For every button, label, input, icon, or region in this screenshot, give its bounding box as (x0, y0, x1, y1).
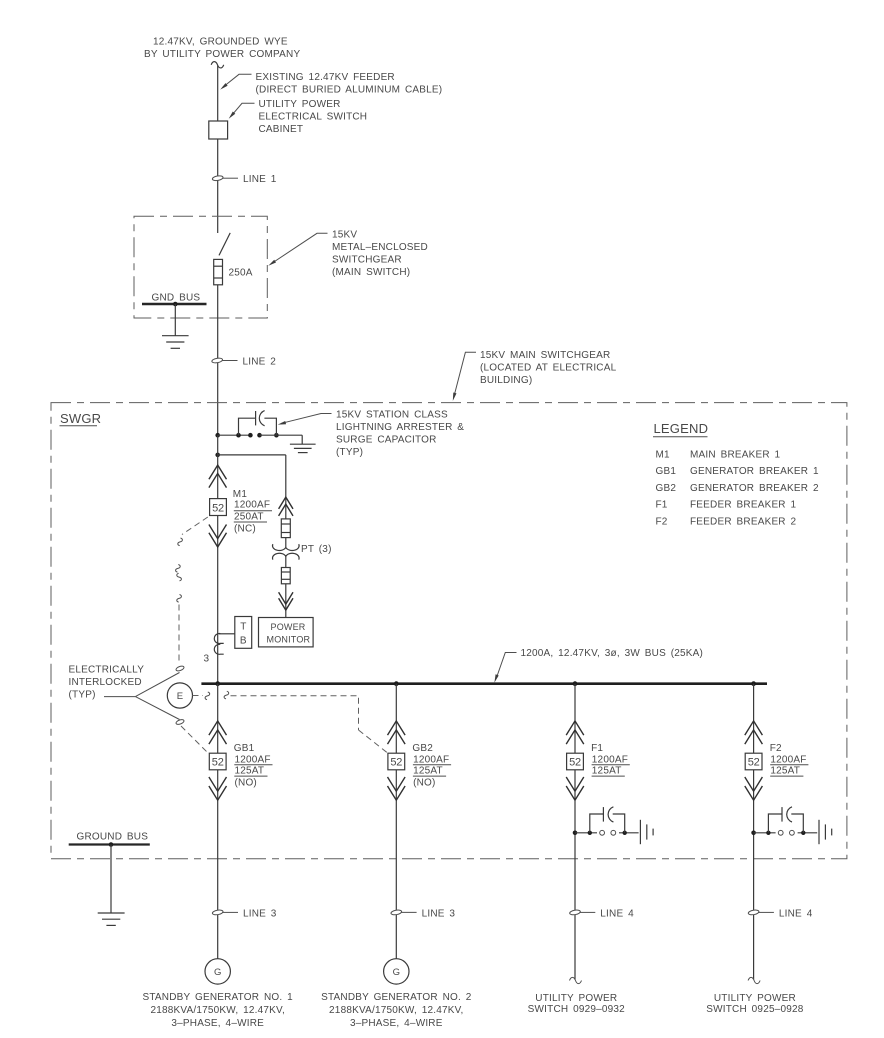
label: bus rating with leader (494, 648, 703, 683)
svg-text:GB1: GB1 (234, 743, 255, 754)
label: 15KV main switchgear note with leader (453, 350, 617, 401)
svg-text:ELECTRICALLY: ELECTRICALLY (69, 664, 145, 675)
wire: GB1 feeder column (217, 684, 219, 959)
breaker F2: drawout chevrons top (745, 721, 763, 744)
ground: F2 surge ground (819, 820, 832, 844)
breaker M1: drawout chevrons top (209, 465, 227, 488)
breaker GB1: drawout chevrons bottom (209, 777, 227, 800)
label: electrically interlocked note (69, 664, 180, 719)
component: PT secondary fuse (281, 568, 290, 584)
label: station class arrester note with leader (278, 410, 465, 459)
svg-text:1200AF: 1200AF (413, 754, 449, 765)
node: LINE 4 marker F2 (748, 908, 813, 919)
node: LINE 2 marker (212, 357, 277, 368)
breaker GB1: drawout chevrons top (209, 721, 227, 744)
svg-text:(NC): (NC) (234, 523, 256, 534)
svg-text:1200AF: 1200AF (592, 754, 628, 765)
svg-text:F1: F1 (656, 500, 668, 511)
bus: 1200A main bus (201, 682, 767, 685)
component: surge capacitor loop (239, 411, 277, 436)
node: junction main line to PT tap (215, 453, 220, 458)
generator G1 (205, 959, 230, 984)
svg-text:15KV: 15KV (332, 230, 357, 241)
svg-text:LINE 4: LINE 4 (779, 908, 813, 919)
label: main switch note with leader (268, 230, 428, 279)
svg-text:FEEDER BREAKER 1: FEEDER BREAKER 1 (690, 500, 797, 511)
component: interlock device E (167, 683, 192, 708)
component: potential transformer PT (3) (272, 544, 331, 560)
breaker F2: 52 device box (745, 753, 762, 770)
label: SWGR (60, 411, 102, 426)
component: fuse 250A (214, 259, 253, 284)
svg-text:(TYP): (TYP) (69, 690, 96, 701)
svg-text:SWGR: SWGR (60, 411, 101, 426)
ground: F1 surge ground (640, 820, 653, 844)
label: LEGEND title (653, 421, 708, 437)
component: F2 surge arrester and capacitor (751, 807, 817, 835)
svg-text:12.47KV, GROUNDED WYE: 12.47KV, GROUNDED WYE (153, 37, 288, 48)
svg-text:3–PHASE, 4–WIRE: 3–PHASE, 4–WIRE (350, 1018, 443, 1029)
svg-text:F1: F1 (591, 743, 603, 754)
svg-text:METAL–ENCLOSED: METAL–ENCLOSED (332, 242, 428, 253)
breaker M1: drawout chevrons bottom (209, 525, 227, 548)
wire: PT tap horizontal (218, 454, 286, 456)
svg-text:F2: F2 (770, 743, 782, 754)
svg-text:UTILITY POWER: UTILITY POWER (535, 993, 617, 1004)
component: PT drawout chevrons (279, 497, 293, 516)
label: legend entry F1 (656, 500, 797, 511)
label: existing feeder note with leader (220, 72, 442, 96)
svg-text:SWITCH 0925–0928: SWITCH 0925–0928 (706, 1004, 804, 1015)
svg-text:1200AF: 1200AF (770, 754, 806, 765)
breaker F1: drawout chevrons bottom (566, 777, 584, 800)
svg-text:B: B (240, 636, 247, 647)
svg-text:52: 52 (569, 757, 581, 769)
svg-text:EXISTING 12.47KV FEEDER: EXISTING 12.47KV FEEDER (256, 72, 395, 83)
wire: incoming feeder from utility (217, 66, 219, 122)
node: bus junction F2 (751, 681, 756, 686)
interlock: dashed link M1 to E (175, 517, 207, 672)
breaker F2: drawout chevrons bottom (745, 777, 763, 800)
svg-text:LINE 3: LINE 3 (243, 908, 277, 919)
svg-text:ELECTRICAL SWITCH: ELECTRICAL SWITCH (259, 112, 368, 123)
wire: incoming feeder break squiggle (211, 62, 224, 68)
breaker M1: 52 device box (210, 499, 227, 516)
label: legend entry GB1 (656, 466, 819, 477)
label: utility power switch 0929-0932 (528, 993, 626, 1015)
component: current transformer CT on main line (204, 633, 224, 664)
label: standby generator no 1 (142, 992, 293, 1029)
svg-text:BY UTILITY POWER COMPANY: BY UTILITY POWER COMPANY (144, 49, 300, 60)
label: standby generator no 2 (321, 992, 472, 1029)
svg-text:FEEDER BREAKER 2: FEEDER BREAKER 2 (690, 516, 797, 527)
svg-text:1200AF: 1200AF (235, 754, 271, 765)
svg-text:GB1: GB1 (656, 466, 677, 477)
svg-text:T: T (240, 622, 246, 633)
label: legend entry M1 (656, 449, 781, 460)
label: legend entry F2 (656, 516, 797, 527)
svg-text:52: 52 (212, 757, 224, 769)
svg-text:M1: M1 (233, 489, 248, 500)
svg-text:125AT: 125AT (413, 766, 443, 777)
wire: PT branch vertical (285, 455, 287, 519)
svg-text:G: G (214, 967, 221, 978)
svg-text:3: 3 (204, 654, 210, 665)
svg-text:GB2: GB2 (656, 483, 677, 494)
svg-text:PT (3): PT (3) (301, 544, 332, 555)
node: GND BUS in main switch (142, 292, 207, 306)
svg-text:2188KVA/1750KW, 12.47KV,: 2188KVA/1750KW, 12.47KV, (150, 1005, 284, 1016)
component: PT lead chevrons down (279, 592, 293, 610)
wire: PT secondary (285, 556, 287, 567)
svg-text:(LOCATED AT ELECTRICAL: (LOCATED AT ELECTRICAL (480, 363, 617, 374)
svg-text:52: 52 (748, 757, 760, 769)
svg-text:250A: 250A (229, 268, 253, 279)
svg-text:E: E (177, 691, 183, 702)
node: bus junction main (215, 681, 220, 686)
svg-text:POWER: POWER (271, 622, 306, 632)
svg-text:LIGHTNING ARRESTER &: LIGHTNING ARRESTER & (336, 422, 464, 433)
svg-text:LEGEND: LEGEND (654, 421, 709, 436)
svg-text:LINE 1: LINE 1 (243, 174, 277, 185)
breaker GB2: drawout chevrons top (388, 721, 406, 744)
node: utility source label (144, 37, 300, 61)
svg-text:1200AF: 1200AF (234, 500, 270, 511)
svg-text:GENERATOR BREAKER 1: GENERATOR BREAKER 1 (690, 466, 819, 477)
wire: fuse to LINE 2 and into SWGR (217, 285, 219, 435)
node: junction main line to arrester (215, 433, 220, 438)
svg-text:52: 52 (390, 757, 402, 769)
component: PT primary fuse (281, 519, 290, 547)
node: GROUND BUS (69, 832, 150, 847)
component: terminal block TB (235, 617, 252, 649)
breaker GB2: 52 device box (388, 753, 405, 770)
component: F1 surge arrester and capacitor (573, 807, 639, 835)
svg-text:(DIRECT BURIED ALUMINUM CABLE): (DIRECT BURIED ALUMINUM CABLE) (256, 85, 443, 96)
svg-text:3–PHASE, 4–WIRE: 3–PHASE, 4–WIRE (171, 1018, 264, 1029)
svg-text:LINE 4: LINE 4 (600, 908, 634, 919)
svg-text:SURGE CAPACITOR: SURGE CAPACITOR (336, 435, 437, 446)
svg-text:(TYP): (TYP) (336, 447, 363, 458)
svg-text:G: G (393, 967, 400, 978)
wire: arrester tap right segment (260, 434, 303, 436)
svg-text:STANDBY GENERATOR NO. 2: STANDBY GENERATOR NO. 2 (321, 992, 472, 1003)
node: LINE 1 marker (212, 174, 277, 185)
svg-text:GENERATOR BREAKER 2: GENERATOR BREAKER 2 (690, 483, 819, 494)
svg-text:125AT: 125AT (770, 766, 800, 777)
svg-text:GB2: GB2 (412, 743, 433, 754)
svg-text:GROUND BUS: GROUND BUS (77, 832, 149, 843)
svg-text:UTILITY POWER: UTILITY POWER (714, 993, 796, 1004)
breaker GB1: 52 device box (209, 753, 226, 770)
node: bus junction GB2 (394, 681, 399, 686)
svg-text:LINE 2: LINE 2 (243, 357, 277, 368)
label: utility power switch 0925-0928 (706, 993, 804, 1015)
wire: F1 line break squiggle (570, 977, 582, 983)
svg-text:LINE 3: LINE 3 (422, 908, 456, 919)
svg-text:M1: M1 (656, 449, 671, 460)
label: legend entry GB2 (656, 483, 819, 494)
breaker F1: drawout chevrons top (566, 721, 584, 744)
svg-text:125AT: 125AT (592, 766, 622, 777)
enclosure: SWGR switchgear boundary (51, 403, 847, 859)
svg-text:UTILITY POWER: UTILITY POWER (259, 99, 341, 110)
breaker F1: 52 device box (567, 753, 584, 770)
svg-text:INTERLOCKED: INTERLOCKED (69, 677, 142, 688)
svg-text:SWITCHGEAR: SWITCHGEAR (332, 255, 402, 266)
svg-text:MONITOR: MONITOR (267, 635, 311, 645)
svg-text:(NO): (NO) (413, 778, 435, 789)
component: lightning arrester spark gap (236, 433, 279, 438)
component: main disconnect switch blade (219, 233, 230, 256)
svg-text:125AT: 125AT (235, 766, 265, 777)
svg-text:SWITCH 0929–0932: SWITCH 0929–0932 (528, 1004, 626, 1015)
svg-text:52: 52 (212, 502, 224, 514)
component: utility power electrical switch cabinet (209, 121, 228, 139)
svg-text:1200A, 12.47KV, 3ø, 3W BUS (25: 1200A, 12.47KV, 3ø, 3W BUS (25KA) (521, 648, 704, 659)
svg-text:15KV STATION CLASS: 15KV STATION CLASS (336, 410, 448, 421)
enclosure: 15KV metal-enclosed switchgear boundary (134, 216, 267, 318)
svg-text:15KV MAIN SWITCHGEAR: 15KV MAIN SWITCHGEAR (480, 350, 610, 361)
svg-text:(MAIN SWITCH): (MAIN SWITCH) (332, 267, 410, 278)
label: cabinet note with leader (229, 99, 368, 135)
svg-text:BUILDING): BUILDING) (480, 375, 532, 386)
node: LINE 3 marker GB1 (212, 908, 277, 919)
component: POWER MONITOR (259, 618, 314, 647)
generator G2 (384, 959, 409, 984)
svg-text:250AT: 250AT (234, 512, 264, 523)
wire: F2 line break squiggle (748, 977, 760, 983)
svg-text:2188KVA/1750KW, 12.47KV,: 2188KVA/1750KW, 12.47KV, (329, 1005, 463, 1016)
node: LINE 3 marker GB2 (391, 908, 456, 919)
wire: main line through M1 (217, 435, 219, 684)
wire: arrester tap left segment (218, 434, 251, 436)
wire: fuse to power monitor (285, 584, 287, 618)
node: bus junction F1 (573, 681, 578, 686)
node: LINE 4 marker F1 (569, 908, 634, 919)
label: GB2 ratings (412, 743, 451, 789)
label: F2 ratings (770, 743, 809, 777)
wire: F1 feeder column (574, 684, 576, 980)
ground: arrester ground (290, 435, 316, 452)
ground: swgr ground electrode (98, 845, 125, 926)
svg-text:GND BUS: GND BUS (152, 292, 201, 303)
wire: F2 feeder column (753, 684, 755, 980)
ground: main switch gnd bus ground (162, 304, 189, 348)
svg-text:(NO): (NO) (235, 778, 257, 789)
wire: GB2 feeder column (395, 684, 397, 959)
svg-text:STANDBY GENERATOR NO. 1: STANDBY GENERATOR NO. 1 (142, 992, 293, 1003)
svg-text:MAIN BREAKER 1: MAIN BREAKER 1 (690, 449, 781, 460)
label: M1 ratings (233, 489, 272, 534)
label: F1 ratings (591, 743, 630, 777)
wire: cabinet to main switch (217, 139, 219, 233)
wire: CT to terminal block (219, 633, 235, 635)
svg-text:F2: F2 (656, 516, 668, 527)
interlock: dashed link E to GB2 (193, 691, 388, 752)
breaker GB2: drawout chevrons bottom (388, 777, 406, 800)
interlock: dashed link E to GB1 (175, 719, 207, 753)
label: GB1 ratings (234, 743, 273, 789)
svg-text:CABINET: CABINET (259, 124, 304, 135)
